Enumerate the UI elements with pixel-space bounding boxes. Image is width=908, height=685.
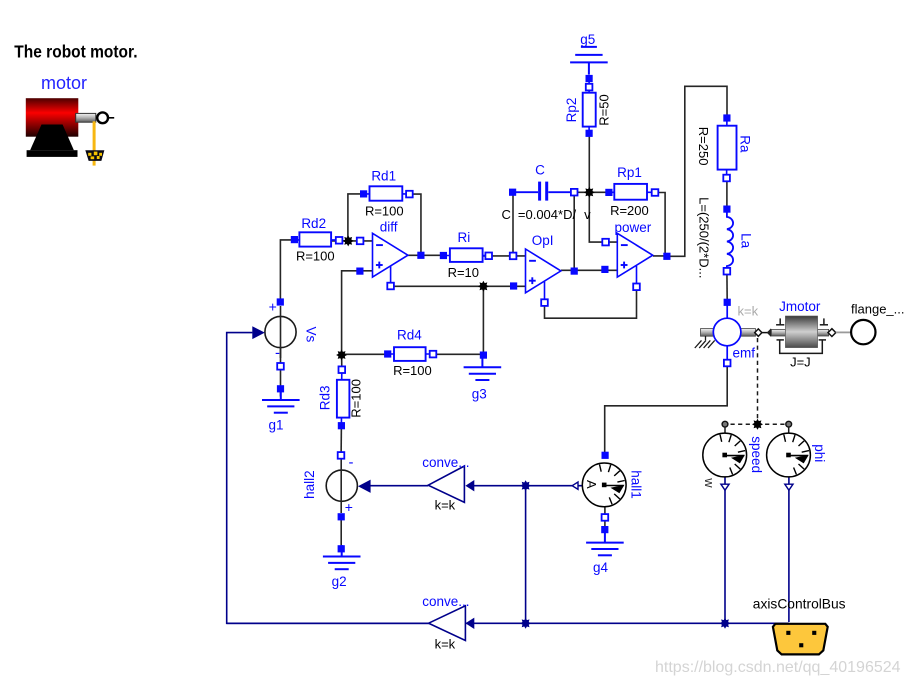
svg-text:-: -: [349, 454, 354, 471]
wire Rd2.n to diff.in_n: [331, 240, 372, 242]
speed sensor pin: [722, 421, 728, 427]
wire convert2.y left and up to Vs.v: [227, 333, 429, 624]
axisControlBus connector: [773, 624, 828, 655]
wire Rd1.p branch down to node A: [348, 194, 364, 241]
node F junction (signal): [520, 618, 531, 629]
wire Rd4.p to node D: [342, 353, 388, 355]
svg-text:power: power: [615, 220, 652, 235]
wire node E down to bus node F: [525, 486, 527, 624]
wire Rd3.n to hall2.p: [340, 426, 342, 456]
phi sensor pin: [786, 421, 792, 427]
wire OpI.out to power.in_p: [561, 269, 617, 271]
motor icon bus wire: [93, 121, 96, 165]
svg-text:emf: emf: [732, 346, 755, 361]
wire diff.out to Ri.p: [408, 254, 444, 256]
svg-text:Ra: Ra: [738, 135, 753, 153]
wire Rd1.n down to diff output node: [409, 194, 421, 255]
wire node C down to g3: [482, 286, 484, 355]
svg-text:-: -: [275, 345, 280, 362]
convert2 input arrow: [465, 618, 474, 629]
resistor Rp1: [605, 165, 658, 218]
svg-text:La: La: [739, 233, 754, 249]
voltage source Vs: [265, 298, 318, 369]
svg-text:R=250: R=250: [696, 127, 711, 166]
wire OpI.in_n node up to C.p: [512, 192, 514, 256]
signal arrow into Vs: [252, 326, 264, 339]
gain convert1: [422, 455, 469, 513]
svg-text:diff: diff: [380, 219, 398, 234]
node C junction: [478, 281, 489, 292]
op-amp diff: [356, 219, 424, 289]
wire La.n to emf.p: [726, 271, 728, 302]
shaft junction diamond (filled): [767, 329, 775, 337]
emf flange diamond: [755, 329, 762, 336]
svg-text:Rd4: Rd4: [397, 327, 422, 342]
phi output open arrow: [785, 484, 793, 490]
hall1 output open arrow: [572, 482, 578, 489]
svg-text:+: +: [269, 299, 277, 315]
op-amp power: [601, 220, 670, 290]
motor icon shaft and flange: [76, 112, 115, 123]
svg-text:Rd1: Rd1: [371, 169, 396, 184]
wire hall2.n to g2: [340, 517, 342, 549]
wire diff VMin to node C to OpI.in_p: [391, 285, 526, 287]
wire power.out up and over to Ra.p: [653, 86, 727, 256]
wire hall1.n to g4: [604, 507, 606, 531]
svg-text:w: w: [702, 477, 717, 488]
inductor La: [697, 197, 754, 278]
convert1 input arrow: [465, 480, 474, 491]
resistor Ri: [440, 230, 492, 280]
svg-text:Rp2: Rp2: [564, 98, 579, 123]
svg-text:R=50: R=50: [597, 94, 612, 125]
Jmotor flange diamond: [828, 329, 836, 337]
wire convert1.y to hall2.v: [371, 485, 429, 487]
speed sensor stub: [724, 427, 726, 433]
svg-text:+: +: [345, 499, 353, 515]
wire Rp2.n down to node B: [588, 133, 590, 192]
signal arrow into hall2: [358, 480, 371, 493]
svg-text:R=100: R=100: [365, 204, 404, 219]
svg-text:R=10: R=10: [448, 265, 479, 280]
node A junction: [343, 235, 354, 246]
svg-text:g2: g2: [332, 574, 347, 589]
op-amp OpI: [510, 233, 578, 306]
dashed wire to speed sensor: [728, 423, 758, 425]
svg-text:k=k: k=k: [435, 636, 456, 651]
motor icon bus connector: [86, 151, 104, 161]
node B junction: [584, 187, 595, 198]
wire Ra.n to La.p: [726, 178, 728, 209]
wire C.n node B to Rp1.p: [574, 191, 609, 193]
ground g3: [464, 352, 502, 402]
emf support hatching: [695, 336, 715, 348]
wire hall1.i output to convert1: [474, 485, 582, 487]
svg-text:C: C: [535, 163, 545, 178]
resistor Ra (vertical): [696, 114, 753, 181]
ground g5 (inverted): [570, 32, 608, 74]
flange link line: [836, 331, 851, 333]
node G junction (signal): [720, 618, 731, 629]
svg-text:R=100: R=100: [296, 249, 335, 264]
motor icon body: [26, 98, 79, 157]
wire Vs.p to Rd2.p: [280, 240, 296, 303]
resistor Rd2: [291, 216, 343, 264]
signal voltage hall2: [302, 452, 357, 520]
inertia Jmotor: [771, 299, 828, 369]
svg-text:R=100: R=100: [393, 363, 432, 378]
node E junction (signal): [520, 480, 531, 491]
svg-text:hall1: hall1: [629, 470, 644, 499]
wire phi.phi down to axisControlBus: [788, 478, 790, 623]
emf: [701, 299, 759, 367]
resistor Rd1: [360, 169, 413, 219]
wire Vs.n to g1: [280, 348, 282, 397]
wire diff.in_p left and down to node D: [342, 271, 373, 355]
svg-text:g3: g3: [472, 387, 487, 402]
svg-text:Vs: Vs: [303, 327, 318, 343]
svg-text:hall2: hall2: [302, 470, 317, 499]
gain convert2: [422, 594, 469, 652]
svg-text:conve...: conve...: [422, 594, 469, 609]
svg-text:g1: g1: [268, 418, 283, 433]
svg-text:motor: motor: [41, 73, 87, 93]
wire node D down to Rd3.p: [341, 354, 343, 369]
svg-text:conve...: conve...: [422, 455, 469, 470]
sensor node junction (dashed): [752, 419, 763, 430]
speed output open arrow: [721, 484, 729, 490]
title text: [14, 42, 137, 62]
svg-text:phi: phi: [812, 444, 827, 462]
ground g1: [262, 385, 300, 432]
svg-text:k=k: k=k: [435, 498, 456, 513]
ground g4: [586, 526, 624, 575]
svg-text:R=100: R=100: [349, 379, 364, 418]
wire emf.n to hall1.p: [605, 363, 728, 455]
flange_motor connector: [851, 320, 875, 344]
svg-text:axisControlBus: axisControlBus: [753, 596, 846, 611]
dashed wire to phi sensor: [758, 423, 787, 425]
shaft link line: [762, 332, 768, 334]
svg-text:Rp1: Rp1: [617, 165, 642, 180]
svg-text:g5: g5: [580, 32, 595, 47]
svg-text:The robot motor.: The robot motor.: [14, 42, 137, 62]
svg-text:Jmotor: Jmotor: [779, 299, 821, 314]
svg-text:L=(250/(2*D...: L=(250/(2*D...: [697, 197, 712, 278]
wire Rp1.n down to power.out node: [655, 193, 665, 257]
wire OpI VMin to power VMin: [545, 287, 637, 318]
svg-text:J=J: J=J: [790, 354, 811, 369]
capacitor C: [509, 163, 578, 201]
resistor Rp2 (vertical): [564, 75, 612, 137]
wire bottom bus to convert2 and axisControlBus: [227, 622, 789, 624]
svg-text:A: A: [584, 480, 599, 489]
node D junction: [336, 350, 347, 361]
svg-text:R=200: R=200: [610, 203, 649, 218]
current sensor hall1: [582, 452, 643, 521]
svg-text:g4: g4: [593, 560, 609, 575]
phi sensor stub: [788, 427, 790, 433]
svg-text:C=0.004*D/v: C=0.004*D/v: [502, 207, 592, 222]
wire power.in_n up to node B: [589, 192, 617, 242]
wire C.n down to OpI.out node: [573, 192, 575, 271]
resistor Rd4: [384, 327, 436, 378]
svg-text:Ri: Ri: [458, 230, 471, 245]
phi sensor gauge: [767, 433, 827, 477]
svg-text:https://blog.csdn.net/qq_40196: https://blog.csdn.net/qq_40196524: [655, 659, 901, 676]
speed sensor gauge: [702, 433, 764, 488]
svg-text:Rd3: Rd3: [318, 386, 333, 411]
ground g2: [323, 545, 361, 589]
wire Rd4.n to g3 pin: [433, 353, 483, 355]
svg-text:k=k: k=k: [738, 304, 759, 319]
svg-text:flange_...: flange_...: [851, 302, 905, 317]
resistor Rd3 (vertical): [318, 366, 364, 429]
wire speed.w down to bus: [724, 478, 726, 624]
dashed wire emf flange to sensor node: [757, 338, 759, 425]
svg-text:Rd2: Rd2: [301, 216, 326, 231]
wire Ri.n to OpI.in_n: [483, 255, 526, 257]
svg-text:OpI: OpI: [532, 233, 554, 248]
svg-text:speed: speed: [749, 436, 764, 473]
